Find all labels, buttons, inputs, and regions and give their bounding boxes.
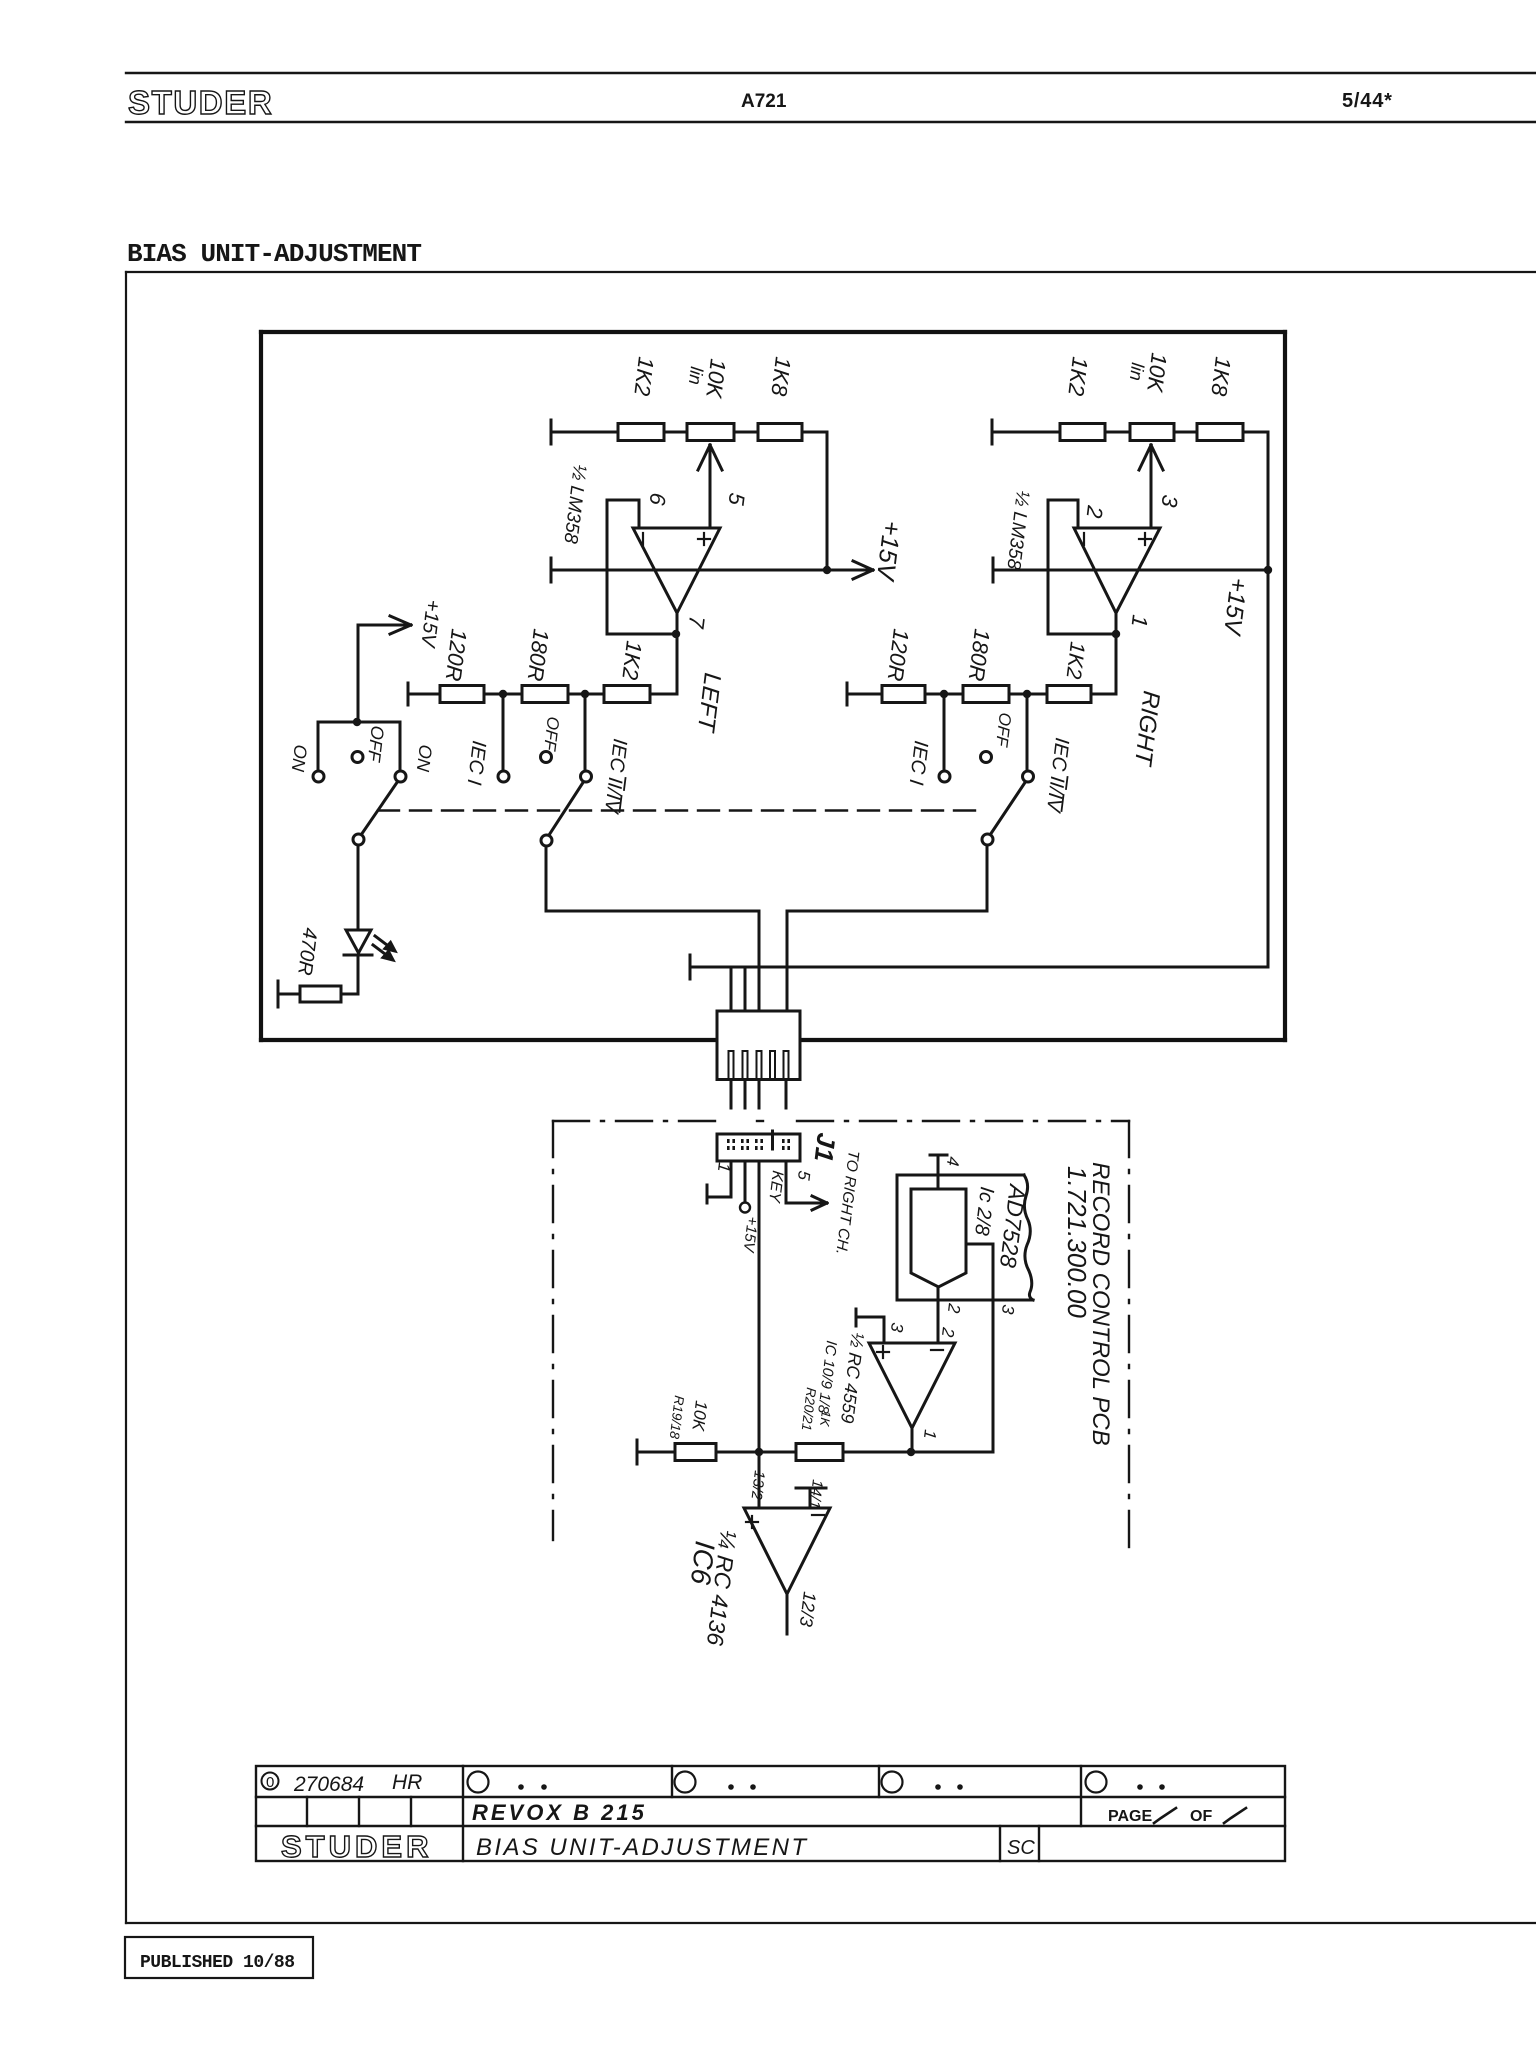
- switch IEC blade: [549, 781, 584, 835]
- svg-text:1K2: 1K2: [1063, 355, 1093, 397]
- wire: [1174, 431, 1197, 434]
- wire: [843, 1451, 993, 1454]
- +15V rail right: [992, 558, 995, 582]
- wire: [552, 1121, 554, 1540]
- wire: [847, 693, 882, 696]
- J1 contact mark: [755, 1139, 758, 1143]
- wire: [856, 1316, 884, 1319]
- svg-text:3: 3: [998, 1304, 1018, 1316]
- svg-text:PAGE: PAGE: [1108, 1808, 1152, 1825]
- junction dots right opamp: [1112, 630, 1120, 638]
- svg-text:TO RIGHT CH.: TO RIGHT CH.: [832, 1150, 862, 1256]
- node: right top rail terminal: [991, 420, 994, 444]
- J1 contact mark: [741, 1139, 744, 1143]
- wire: [1077, 500, 1080, 528]
- svg-text:½ LM358: ½ LM358: [559, 463, 590, 545]
- shape: [385, 943, 395, 952]
- wire: [664, 431, 687, 434]
- minus sign: [812, 1514, 824, 1516]
- connector pin slot: [757, 1051, 762, 1079]
- op-amp output wire: [676, 613, 679, 694]
- svg-text:½ LM358: ½ LM358: [1002, 489, 1033, 571]
- shape: [1154, 1808, 1176, 1823]
- wire: [607, 633, 676, 636]
- wire: [261, 330, 1285, 334]
- J1 contact mark: [727, 1146, 730, 1150]
- wire: [278, 993, 300, 996]
- svg-text:½ RC 4559: ½ RC 4559: [837, 1332, 868, 1425]
- svg-text:LEFT: LEFT: [692, 671, 726, 735]
- junction dot (759,1452): [755, 1448, 763, 1456]
- svg-text:REVOX B 215: REVOX B 215: [472, 1800, 647, 1825]
- svg-text:2: 2: [938, 1326, 958, 1339]
- pin 2 to +15V circle: [744, 1161, 747, 1202]
- junction dot (1027,694): [1023, 690, 1031, 698]
- svg-text:10K: 10K: [688, 1400, 711, 1433]
- svg-text:SC: SC: [1007, 1837, 1035, 1859]
- wire: [706, 1185, 709, 1203]
- wire: [758, 1080, 761, 1109]
- terminal: [277, 981, 280, 1007]
- pin 3 input: [855, 1309, 858, 1326]
- wire: [710, 445, 722, 470]
- connector pin slot: [770, 1051, 775, 1079]
- contact circle (685,1782): [675, 1772, 696, 1793]
- wires into connector top: [730, 967, 733, 1011]
- svg-text:120R: 120R: [441, 627, 472, 682]
- svg-text:lin: lin: [1126, 362, 1148, 382]
- plus sign: [746, 1521, 758, 1523]
- wire: [812, 1196, 827, 1203]
- wire: [797, 1120, 1129, 1122]
- contact circle (986,757): [981, 752, 992, 763]
- wire: [638, 500, 641, 528]
- switch blade: [361, 781, 398, 835]
- svg-text:OFF: OFF: [364, 725, 388, 764]
- wire: [551, 431, 618, 434]
- svg-text:1K: 1K: [817, 1410, 834, 1429]
- wire: [812, 1203, 827, 1210]
- svg-text:+15V: +15V: [416, 598, 444, 649]
- wire: [1105, 431, 1130, 434]
- svg-text:180R: 180R: [964, 627, 995, 682]
- resistor 1K8: [758, 424, 802, 441]
- junction dot (827,570): [823, 566, 831, 574]
- output: [786, 1594, 789, 1634]
- svg-text:IEC I: IEC I: [463, 739, 490, 786]
- svg-text:IEC II/IV: IEC II/IV: [1042, 736, 1073, 814]
- wire: [620, 796, 622, 812]
- svg-text:13/2: 13/2: [747, 1470, 768, 1502]
- svg-text:+15V: +15V: [871, 519, 906, 583]
- svg-text:OFF: OFF: [992, 712, 1015, 750]
- wire: [1139, 445, 1151, 470]
- svg-text:1K2: 1K2: [617, 639, 647, 681]
- wiper arrow right pot: [1150, 445, 1153, 527]
- resistor 180R: [522, 686, 568, 703]
- svg-text:3: 3: [887, 1322, 907, 1334]
- wire: [317, 722, 320, 771]
- svg-text:Ic 2/8: Ic 2/8: [970, 1185, 998, 1236]
- svg-text:180R: 180R: [523, 627, 554, 682]
- svg-text:PUBLISHED 10/88: PUBLISHED 10/88: [140, 1953, 295, 1973]
- wire: [606, 500, 609, 634]
- svg-text:1: 1: [920, 1429, 940, 1441]
- wire: [882, 1346, 884, 1358]
- svg-text:lin: lin: [685, 366, 707, 386]
- resistor 1K8 right: [1197, 424, 1243, 441]
- wire: [803, 1038, 1285, 1042]
- wire: [1047, 500, 1050, 634]
- contact circle (521,1787): [518, 1784, 524, 1790]
- wire: [358, 624, 408, 627]
- pin 1 to terminal: [730, 1161, 733, 1197]
- triangle: [744, 1508, 830, 1594]
- wire: [553, 1120, 722, 1122]
- wire: [786, 1202, 824, 1205]
- contact circle (318.5,776.5): [313, 771, 324, 782]
- svg-text:IC6: IC6: [685, 1539, 721, 1586]
- junction dot (911,1452): [907, 1448, 915, 1456]
- svg-text:IEC I: IEC I: [905, 739, 932, 786]
- svg-text:1K8: 1K8: [766, 355, 796, 398]
- resistor 120R: [440, 686, 484, 703]
- wires out connector bottom: [730, 1080, 733, 1109]
- svg-text:ON: ON: [413, 744, 436, 774]
- wiper arrow of pot: [709, 445, 712, 527]
- potentiometer 10K lin right: [1130, 424, 1174, 441]
- wire: [787, 910, 987, 913]
- svg-text:STUDER: STUDER: [128, 84, 273, 121]
- wire: [1267, 570, 1270, 967]
- wire: [883, 1317, 886, 1343]
- junction dots lower rail: [499, 690, 507, 698]
- cloud box: [897, 1175, 1033, 1300]
- svg-text:0: 0: [266, 1774, 274, 1791]
- wire: [853, 570, 873, 579]
- svg-text:KEY: KEY: [765, 1170, 786, 1205]
- plus sign input: [1139, 538, 1151, 540]
- switch circles: [313, 752, 406, 846]
- svg-text:BIAS UNIT-ADJUSTMENT: BIAS UNIT-ADJUSTMENT: [127, 239, 421, 269]
- wire: [809, 1488, 812, 1508]
- wire: [568, 693, 604, 696]
- key mark: [771, 1131, 774, 1149]
- connector housing: [717, 1011, 800, 1080]
- wire: [462, 1766, 464, 1861]
- pin 3 tap wire: [966, 1243, 993, 1246]
- contact circle (400.5,776.5): [395, 771, 406, 782]
- output wire: [911, 1428, 914, 1452]
- outer frame: [126, 272, 1536, 1923]
- wire: [846, 683, 849, 705]
- header rule top: [126, 72, 1536, 74]
- wire: [999, 1826, 1001, 1861]
- svg-text:7: 7: [683, 614, 709, 630]
- wire: [390, 625, 411, 634]
- wire: [758, 911, 761, 1011]
- switch circles right: [939, 752, 1034, 846]
- wire: [484, 693, 522, 696]
- +15V arrow top left: [357, 625, 360, 722]
- wire: [551, 569, 870, 572]
- contact circle (938,1787): [935, 1784, 941, 1790]
- wire: [744, 967, 747, 1011]
- revision circles: [468, 1772, 1107, 1793]
- wire: [744, 1080, 747, 1109]
- svg-text:STUDER: STUDER: [281, 1829, 432, 1864]
- wire: [1038, 1826, 1040, 1861]
- wire: [689, 955, 692, 979]
- J1 contact marks: [727, 1139, 790, 1150]
- resistor 120R right: [882, 686, 925, 703]
- shape: [383, 952, 393, 961]
- wire: [341, 993, 358, 996]
- svg-text:1K8: 1K8: [1206, 355, 1236, 398]
- svg-text:1K2: 1K2: [1061, 640, 1088, 680]
- wire: [878, 1766, 880, 1797]
- J1 pin wires below: [707, 1161, 827, 1452]
- wire: [1080, 1766, 1082, 1826]
- wire from pivot to connector: [545, 846, 548, 911]
- wire: [925, 693, 963, 696]
- wire IEC I tap right: [943, 694, 946, 771]
- contact circle (731,1787): [728, 1784, 734, 1790]
- wire: [698, 445, 710, 470]
- pin 5 arrow to right channel: [785, 1161, 788, 1203]
- op-amp output wire right: [1115, 613, 1118, 694]
- wire: [1048, 633, 1116, 636]
- wire: [1267, 432, 1270, 570]
- contact circle (1096,1782): [1086, 1772, 1107, 1793]
- junction dots left opamp: [672, 630, 680, 638]
- wire: [1066, 777, 1068, 789]
- svg-text:OFF: OFF: [540, 716, 563, 754]
- wire: [993, 569, 1268, 572]
- svg-text:5: 5: [794, 1170, 814, 1182]
- svg-text:12/3: 12/3: [796, 1591, 820, 1628]
- wire: [637, 1451, 675, 1454]
- wire: [1243, 431, 1268, 434]
- svg-text:6: 6: [644, 491, 670, 507]
- minus input stub: [796, 1487, 826, 1490]
- wire: [930, 1154, 947, 1157]
- pin 3 long wire down: [758, 1161, 761, 1452]
- svg-text:HR: HR: [392, 1771, 422, 1794]
- revision circle 0: [262, 1773, 279, 1790]
- svg-text:IEC II/IV: IEC II/IV: [600, 737, 631, 815]
- wire: [126, 1922, 1536, 1924]
- contact circle (944.5,776.5): [939, 771, 950, 782]
- svg-text:RIGHT: RIGHT: [1129, 689, 1165, 769]
- switch IEC blade right: [990, 781, 1026, 835]
- pin 2 wire down: [937, 1287, 940, 1343]
- resistor 1K2 (top right): [1060, 424, 1105, 441]
- wire: [802, 431, 827, 434]
- wire: [734, 431, 758, 434]
- wire LED to resistor: [357, 955, 360, 994]
- wire: [786, 911, 789, 1011]
- +15V arrow head: [853, 561, 873, 570]
- svg-text:+15V: +15V: [1218, 576, 1252, 638]
- J1 contact mark: [727, 1139, 730, 1143]
- wire: [650, 693, 677, 696]
- svg-text:120R: 120R: [883, 627, 914, 682]
- wire: [671, 1766, 673, 1797]
- resistor 470R: [300, 986, 341, 1002]
- J1 contact mark: [782, 1139, 785, 1143]
- wire: [1091, 693, 1116, 696]
- wire: [1283, 332, 1287, 1040]
- wire: [373, 945, 389, 957]
- wire: [690, 966, 1268, 969]
- +15V rail through op-amp: [550, 558, 553, 582]
- svg-text:4: 4: [943, 1156, 963, 1168]
- wire: [256, 1796, 1285, 1798]
- wire: [785, 1080, 788, 1109]
- svg-text:2: 2: [1082, 503, 1108, 519]
- wire: [992, 431, 1060, 434]
- wire: [1151, 445, 1163, 470]
- J1 contact mark: [782, 1146, 785, 1150]
- contact circle (546.5,840.5): [541, 835, 552, 846]
- wire: [1144, 533, 1146, 545]
- svg-text:3: 3: [1156, 493, 1182, 509]
- junction dot switch feed: [353, 718, 361, 726]
- svg-text:470R: 470R: [293, 926, 321, 976]
- svg-text:BIAS UNIT-ADJUSTMENT: BIAS UNIT-ADJUSTMENT: [476, 1834, 808, 1861]
- svg-text:1: 1: [1127, 613, 1153, 628]
- resistor 1K2 (top left): [618, 424, 664, 441]
- published box: [125, 1937, 313, 1978]
- contact circle (358.5,839.5): [353, 834, 364, 845]
- minus sign input: [1083, 533, 1085, 545]
- svg-text:J1: J1: [809, 1131, 842, 1163]
- header rule bottom: [126, 121, 1536, 123]
- +15V open terminal circle: [740, 1203, 750, 1213]
- wire: [1062, 795, 1064, 811]
- connector pin slot: [743, 1051, 748, 1079]
- wire: [1009, 693, 1047, 696]
- wire: [358, 1797, 360, 1826]
- junction dot (1268,570): [1264, 566, 1272, 574]
- contact circle (586,776.5): [581, 771, 592, 782]
- contact circle (503.5,776.5): [498, 771, 509, 782]
- plus sign: [877, 1351, 889, 1353]
- feedback loop wires: [607, 499, 639, 502]
- wire: [306, 1797, 308, 1826]
- wire: [992, 1244, 995, 1452]
- junction dots right rail: [940, 690, 948, 698]
- op-amp U1a LM358 triangle: [633, 528, 720, 613]
- plus sign input: [698, 538, 710, 540]
- LED D1: [346, 930, 371, 953]
- wire: corner down to +15V rail: [826, 432, 829, 570]
- contact circle (1028,776.5): [1023, 771, 1034, 782]
- wire: [399, 722, 402, 771]
- connector pin slot: [784, 1051, 789, 1079]
- svg-text:R20/21: R20/21: [799, 1387, 819, 1432]
- svg-text:+15V: +15V: [739, 1216, 760, 1255]
- svg-text:270684: 270684: [293, 1773, 364, 1796]
- terminal: [407, 683, 410, 705]
- resistor R20/21: [796, 1444, 843, 1461]
- contact circle (546,757): [541, 752, 552, 763]
- wire: [703, 533, 705, 545]
- switch ON-OFF-ON top bar: [318, 721, 400, 724]
- wire: [1128, 1121, 1130, 1560]
- svg-text:R19/18: R19/18: [667, 1395, 687, 1441]
- wire: [751, 1516, 753, 1528]
- J1 contact mark: [755, 1146, 758, 1150]
- svg-text:ON: ON: [288, 744, 311, 774]
- wire: [757, 1120, 763, 1122]
- inner unit box (thick): [261, 332, 1285, 1040]
- svg-text:OF: OF: [1190, 1808, 1212, 1825]
- wire: [716, 1451, 796, 1454]
- contact circle (478,1782): [468, 1772, 489, 1793]
- box: [256, 1766, 1285, 1861]
- DAC pentagon: [911, 1189, 966, 1287]
- box: [125, 1937, 313, 1978]
- op-amp triangle: [869, 1343, 955, 1428]
- wire to LED: [357, 846, 360, 930]
- mechanical gang dashed line: [378, 809, 983, 811]
- wire: [410, 1797, 412, 1826]
- wire: [256, 1825, 1285, 1827]
- node: left top rail terminal: [550, 420, 553, 444]
- svg-text:1.721.300.00: 1.721.300.00: [1062, 1166, 1092, 1318]
- contact circle (987.5,839.5): [982, 834, 993, 845]
- wire: [259, 332, 263, 1040]
- svg-text:5: 5: [723, 491, 749, 507]
- feedback loop wires right: [1048, 499, 1078, 502]
- contact circle (1140,1787): [1137, 1784, 1143, 1790]
- wire IEC II tap: [584, 694, 587, 771]
- junction dot (585,694): [581, 690, 589, 698]
- wire from rail to IC6: [758, 1452, 761, 1508]
- wire: [344, 954, 372, 957]
- svg-text:14/1: 14/1: [805, 1479, 825, 1510]
- svg-text:5/44*: 5/44*: [1342, 90, 1393, 112]
- wire: [624, 778, 626, 790]
- wire: [408, 693, 440, 696]
- wire: [707, 1196, 731, 1199]
- minus sign input: [642, 533, 644, 545]
- svg-text:2: 2: [944, 1302, 964, 1315]
- wire: [546, 910, 759, 913]
- svg-text:A721: A721: [741, 91, 787, 112]
- minus sign: [931, 1349, 943, 1351]
- wire: [261, 1038, 714, 1042]
- resistor 1K2 (feedback right): [1047, 686, 1091, 703]
- wire: [636, 1440, 639, 1464]
- wire: [390, 616, 411, 625]
- potentiometer 10K lin: [687, 424, 734, 441]
- svg-text:1: 1: [714, 1162, 734, 1174]
- pin 4 wire and terminal: [937, 1155, 940, 1189]
- wire IEC II tap right: [1026, 694, 1029, 771]
- wire: [125, 272, 127, 1923]
- pin slots: [729, 1051, 734, 1079]
- J1 contact mark: [741, 1146, 744, 1150]
- resistor 180R right: [963, 686, 1009, 703]
- contact circle (357.5,757): [352, 752, 363, 763]
- resistor 1K2 (feedback): [604, 686, 650, 703]
- wire from pivot to connector right: [986, 845, 989, 911]
- op-amp U1b LM358 triangle: [1074, 528, 1160, 613]
- wire IEC I tap: [502, 694, 505, 771]
